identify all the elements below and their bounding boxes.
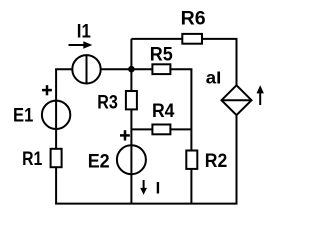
wire right column vertical x=191.4 bbox=[190, 69, 192, 203]
resistor R3 bbox=[126, 91, 137, 109]
wire right branch bottom (dependent source to bottom rail) bbox=[236, 115, 238, 204]
svg-text:E2: E2 bbox=[88, 152, 110, 173]
wire top-left rail left segment (node A to I1 left terminal) bbox=[55, 68, 72, 70]
current source I1 bbox=[72, 55, 100, 83]
svg-text:aI: aI bbox=[206, 68, 222, 88]
wire R6 rail bbox=[131, 38, 237, 40]
svg-text:R6: R6 bbox=[181, 9, 206, 30]
resistor R4 bbox=[152, 125, 170, 135]
svg-text:R3: R3 bbox=[97, 93, 118, 114]
svg-text:I1: I1 bbox=[77, 21, 91, 42]
plus sign of E1 bbox=[42, 85, 52, 95]
resistor R5 bbox=[152, 64, 170, 74]
arrow for current I below E2 bbox=[140, 180, 147, 195]
wire bottom rail bbox=[55, 203, 237, 205]
svg-text:R2: R2 bbox=[205, 151, 228, 172]
wire middle branch vertical (node A down through R3 and E2 to bottom rail) bbox=[130, 69, 132, 203]
svg-text:R4: R4 bbox=[152, 101, 175, 122]
resistor R6 bbox=[182, 34, 202, 44]
wire left branch vertical (through E1) bbox=[55, 69, 57, 203]
arrow for I1 current direction bbox=[69, 41, 93, 49]
node A junction dot bbox=[128, 66, 135, 73]
wire right branch top (R6 rail corner down to dependent source) bbox=[236, 39, 238, 86]
voltage source E1 bbox=[42, 101, 70, 129]
resistor R1 bbox=[51, 149, 62, 167]
plus sign of E2 bbox=[120, 130, 130, 140]
arrow for aI direction (up) bbox=[257, 85, 264, 105]
wire R4 rail bbox=[131, 128, 191, 130]
wire R5 rail from node A to right column bbox=[131, 68, 192, 70]
wire riser from node A up to R6 rail bbox=[130, 39, 132, 69]
dependent current source aI (diamond) bbox=[222, 85, 252, 115]
voltage source E2 bbox=[117, 145, 146, 174]
wire I1 right terminal to center node bbox=[101, 68, 132, 70]
svg-text:R1: R1 bbox=[22, 149, 43, 170]
svg-text:R5: R5 bbox=[150, 44, 173, 65]
svg-text:I: I bbox=[156, 180, 161, 198]
resistor R2 bbox=[186, 151, 197, 169]
svg-text:E1: E1 bbox=[13, 106, 34, 127]
